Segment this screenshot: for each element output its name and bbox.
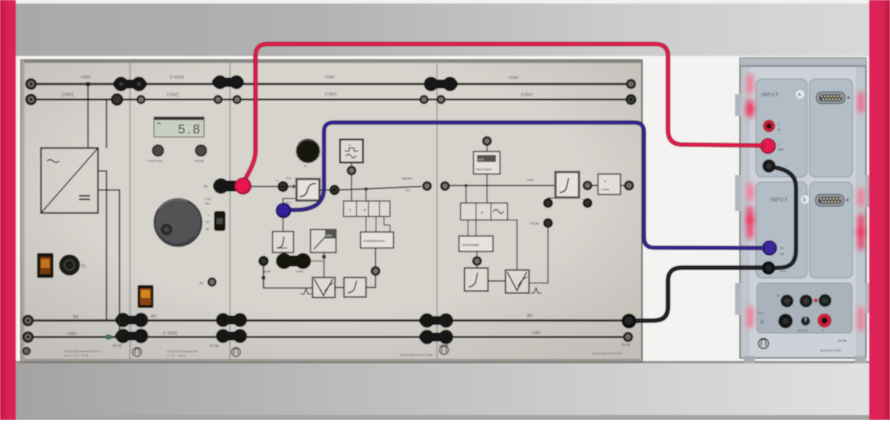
terminal +5V bus M2 pair <box>214 96 221 103</box>
control jack row2 a <box>778 314 792 328</box>
jack A3 (black) <box>762 159 775 172</box>
svg-text:Hi: Hi <box>778 128 781 132</box>
terminal ECOM <box>260 257 268 265</box>
multiplier box M4 <box>506 270 530 293</box>
wire to OUT terminal <box>621 185 626 187</box>
mounting tab left lower <box>735 283 741 315</box>
wire from +15V bus to supply <box>87 84 89 148</box>
terminal R2 b <box>441 182 449 190</box>
mounting tab left upper <box>735 175 741 211</box>
LED glow left A <box>747 74 753 94</box>
fc adjust knob (knurled) <box>297 140 320 163</box>
junction to expander row <box>465 184 468 187</box>
wires row to COMPRESSOR <box>365 217 367 233</box>
terminal +5V bus M1b <box>137 96 144 103</box>
control jack row1 a <box>781 295 794 308</box>
wire y-jack to rectifier box <box>282 218 284 232</box>
power supply U1 rectifier box <box>41 148 98 213</box>
indicator red dot <box>814 299 818 303</box>
jack B1 (blue, cable attached) <box>762 240 777 255</box>
+15V bus line (top rail 1) <box>31 83 631 85</box>
terminal +5V left end <box>26 95 35 104</box>
LED glow left B2 <box>747 206 753 239</box>
terminal above recovery <box>483 137 491 145</box>
bridging plug pair on +15V bus M2/M3 <box>212 75 244 89</box>
compressor gain block row <box>344 201 391 217</box>
module M2 maker logo <box>133 348 142 357</box>
multiplier box M3 <box>313 278 336 298</box>
terminal -15V right end <box>624 333 632 341</box>
wire main path to R2 <box>339 187 422 191</box>
svg-text:SENSOR CASSY: SENSOR CASSY <box>820 349 842 353</box>
svg-text:INPUT: INPUT <box>770 198 788 204</box>
MODE button <box>196 145 207 156</box>
terminal +5V bus M4 pair <box>420 96 427 103</box>
filter box M3 <box>344 278 366 298</box>
black patch lead jack A3 to jack B2 <box>775 168 796 269</box>
D-sub connector B <box>816 195 849 207</box>
FUNCTION button <box>153 145 164 156</box>
level set bridging plug (dumbbell) <box>276 253 311 269</box>
left crimson bar <box>0 0 16 420</box>
wire supply output to 0V bus <box>98 171 107 320</box>
LED glow right A <box>858 92 864 113</box>
LED glow left C <box>747 306 753 328</box>
expander gain block row <box>461 203 508 220</box>
terminal +15V right end <box>627 80 635 88</box>
module divider M2/M3 <box>229 62 231 360</box>
jack B2 (black, cable attached) <box>762 261 776 275</box>
svg-text:MIN·MAX: MIN·MAX <box>798 330 809 333</box>
NR gain box <box>311 230 337 253</box>
wire recovery down <box>486 145 488 152</box>
pilot tone recovery box <box>474 152 501 175</box>
channel A badge <box>796 90 804 98</box>
top gray gradient band <box>0 3 890 56</box>
ground terminal bottom left <box>23 348 30 355</box>
wire supply output to -15V bus <box>98 190 120 337</box>
bridging plug pair on +15V bus M1/M2 <box>113 77 147 91</box>
terminal OUT <box>625 182 633 190</box>
banana plug black at 0V bus <box>622 314 637 329</box>
channel A connector section <box>810 79 853 177</box>
reconstruction filter box 2.5kHz <box>598 174 621 195</box>
module divider M3/M4 <box>436 62 438 360</box>
control jack row2 red <box>818 314 832 328</box>
COMPRESSOR block <box>361 232 394 248</box>
red test lead from generator output to INPUT A <box>243 44 762 183</box>
jack A1 (red) <box>763 120 775 132</box>
svg-text:∅: ∅ <box>760 320 764 326</box>
svg-text:R: R <box>822 330 824 333</box>
mounting tab left top <box>735 94 741 116</box>
bottom gray gradient band <box>0 362 890 415</box>
training panel base plate <box>21 60 642 362</box>
wire compressor out <box>320 189 331 191</box>
status marker green <box>106 335 111 340</box>
filter box M4 <box>465 268 489 291</box>
LED glow right C <box>858 307 864 331</box>
range slide switch <box>214 211 226 231</box>
wire LPF aux to terminal <box>548 198 558 199</box>
terminal R2 a <box>423 182 431 190</box>
mounting tab right lower <box>865 283 869 313</box>
terminal LPF out <box>584 182 592 190</box>
module divider M1/M2 <box>129 62 131 360</box>
control jack row1 c <box>819 294 832 307</box>
wire multiplier out to DCOM <box>529 227 548 283</box>
terminal DCOM upper <box>544 199 552 207</box>
bridging plug pair on -15V bus M1/M2 <box>115 329 148 343</box>
wire sync to signal path <box>351 163 353 167</box>
blue test lead from y jack to INPUT B <box>287 123 763 249</box>
LED glow left B <box>747 183 753 201</box>
svg-text:INT/L: INT/L <box>758 312 765 315</box>
svg-text:BNC: BNC <box>779 148 785 152</box>
wire multiplier up to row <box>516 220 518 270</box>
terminal -15V left end <box>23 332 32 341</box>
bridging plug pair on 0V bus M3/M4 <box>419 313 453 327</box>
wire dumbbell to NR column <box>310 260 324 262</box>
control section <box>757 283 852 333</box>
banana plug red at generator OUT <box>213 177 252 194</box>
channel B badge <box>801 195 809 203</box>
channel A jack section <box>756 79 807 177</box>
LED glow right B <box>858 188 864 207</box>
channel B jack section <box>756 182 807 278</box>
bridging plug pair on -15V bus M3/M4 <box>419 330 453 344</box>
potentiometer T1 <box>59 255 80 276</box>
wires row to EXPANDER <box>467 220 469 236</box>
wire filter to multiplier M4 <box>488 280 506 282</box>
wire IN to compressor <box>248 186 297 188</box>
terminal LPF aux <box>584 199 592 207</box>
svg-text:INT: INT <box>780 252 785 256</box>
channel B connector section <box>810 182 853 278</box>
terminal below expander <box>473 257 481 265</box>
bridging plug pair on -15V bus M2/M3 <box>216 329 247 343</box>
wire y jack to K(-) input <box>283 199 297 205</box>
black test lead from 0V bus to INPUT B ground <box>634 268 762 321</box>
compressor characteristic box <box>297 179 320 201</box>
mains switch S1 (orange rocker) <box>37 253 54 278</box>
wire R2 to LPF <box>449 185 556 187</box>
svg-text:54 56: 54 56 <box>838 339 847 343</box>
trim knob <box>801 316 810 325</box>
+5V bus line (top rail 2) <box>31 99 631 101</box>
mounting tab right upper <box>865 175 869 207</box>
control jack row1 b <box>800 295 813 308</box>
LED glow right B2 <box>858 214 864 250</box>
wire ECOM down and to multiplier <box>264 266 313 289</box>
LED glow left A2 <box>747 99 753 118</box>
terminal 0V left end <box>23 316 32 325</box>
jack A2 (red, cable attached) <box>760 138 776 154</box>
svg-text:INPUT: INPUT <box>761 93 779 99</box>
0V bus line (bottom rail 1) <box>27 319 628 321</box>
terminal below sync box <box>348 167 356 175</box>
terminal feedback <box>372 267 380 275</box>
EXPANDER block <box>459 236 493 252</box>
foot left <box>744 356 755 363</box>
-15V bus line (bottom rail 2) <box>27 336 628 338</box>
wire NR box down <box>323 253 325 278</box>
bridging plug pair on +15V bus M3/M4 <box>424 77 458 91</box>
foot right <box>855 356 866 363</box>
interface module chassis <box>740 58 866 358</box>
power switch S2 (orange rocker lit) <box>138 285 154 308</box>
panel vignette shading <box>21 60 642 362</box>
module M3 maker logo <box>440 346 449 355</box>
right crimson bar <box>869 0 890 420</box>
terminal compressor out <box>330 186 338 194</box>
banana plug blue at y jack <box>276 203 292 219</box>
pulse glyph <box>301 289 311 294</box>
output LPF box <box>556 172 580 198</box>
bridging plug pair on 0V bus M1/M2 <box>115 313 148 327</box>
D-sub connector A <box>817 92 850 104</box>
wire LPF to reconstruction filter <box>592 185 599 187</box>
sync source box <box>340 140 363 163</box>
pulse glyph M4 <box>531 288 541 293</box>
rectifier curve box (left) <box>273 232 294 253</box>
junction on main path <box>364 187 367 190</box>
maker logo right panel <box>759 339 769 349</box>
bottom darker edge row <box>0 415 890 420</box>
svg-text:S1: S1 <box>780 246 784 250</box>
LCD display of function generator <box>154 117 204 137</box>
wire filter up to COMPRESSOR <box>366 275 376 288</box>
terminal +5V right end <box>627 95 636 104</box>
top white sliver <box>0 0 890 4</box>
terminal DCOM <box>544 219 552 227</box>
socket on +5V bus M1 <box>112 94 122 104</box>
table edge shadow line <box>16 361 869 363</box>
frequency knob (large) <box>155 199 202 246</box>
wire multiplier to filter <box>335 287 344 289</box>
bridging plug pair on 0V bus M2/M3 <box>216 313 247 327</box>
terminal +15V left end <box>26 79 35 88</box>
